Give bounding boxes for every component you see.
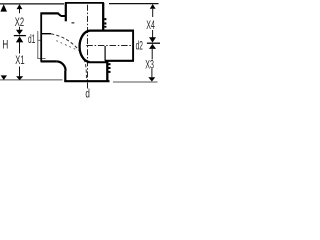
dimension X1 line xyxy=(19,42,21,53)
dimension X2 arrow bottom xyxy=(16,30,23,35)
outline: bottom edge left xyxy=(41,60,57,62)
dimension X3 arrow bottom xyxy=(148,77,155,81)
outline: spigot left edge xyxy=(64,71,66,82)
outline: right branch top edge xyxy=(90,30,135,32)
small floating dash xyxy=(72,22,75,23)
reference bar right (X4/X3) xyxy=(147,42,160,44)
pipe fitting technical drawing xyxy=(0,0,160,101)
outline: left socket top xyxy=(41,12,59,14)
outline: C ellipse (swept bend) xyxy=(80,31,90,63)
extension line top-right xyxy=(109,3,159,5)
outline: top face xyxy=(65,2,104,4)
extension line bottom-right xyxy=(113,81,158,83)
dimension X2 line xyxy=(19,9,21,13)
svg-text:X3: X3 xyxy=(145,59,154,71)
dimension X1 arrow bottom xyxy=(16,76,23,80)
outline: bore top xyxy=(42,33,51,35)
outline: top socket left edge xyxy=(65,3,67,22)
teeth top socket xyxy=(104,18,106,20)
dimension X4 line xyxy=(152,9,154,17)
dimension X3 line xyxy=(151,49,153,60)
extension line bottom-left xyxy=(0,79,63,81)
dimension X4 arrow bottom xyxy=(149,37,156,42)
dimension X1 arrow top xyxy=(16,36,23,42)
outline: C bottom tail xyxy=(90,61,108,63)
svg-text:d1: d1 xyxy=(28,32,35,46)
svg-text:X4: X4 xyxy=(146,20,155,32)
svg-text:d2: d2 xyxy=(136,39,143,53)
dimension X4 arrow top xyxy=(150,4,156,9)
vertical centerline xyxy=(87,5,89,89)
outline: step xyxy=(58,14,61,16)
svg-text:X1: X1 xyxy=(15,55,24,67)
svg-text:X2: X2 xyxy=(15,17,24,29)
outline: lower-left arc xyxy=(56,61,65,70)
teeth spigot xyxy=(108,63,110,65)
outline: right end face xyxy=(132,30,134,61)
svg-text:H: H xyxy=(2,39,8,51)
reference bar left (X2/X1) xyxy=(14,35,26,37)
dimension X3 arrow top xyxy=(149,44,156,49)
d1 witness line vertical xyxy=(38,31,46,59)
dashed inner line B xyxy=(56,41,78,51)
outline: body top left xyxy=(61,15,66,17)
d1 tick xyxy=(38,39,41,41)
dimension H arrow top xyxy=(0,4,7,11)
outline: top socket right edge xyxy=(102,3,104,31)
dashed inner sweep curve xyxy=(51,34,86,80)
outline: right branch bottom edge xyxy=(105,60,134,62)
outline: d2 shoulder xyxy=(104,46,106,61)
extension line top-left xyxy=(0,3,64,5)
svg-text:d: d xyxy=(85,87,90,101)
outline: bottom face xyxy=(64,80,109,82)
dimension H arrow bottom xyxy=(1,75,7,80)
outline: spigot right edge xyxy=(106,61,108,82)
dimension X2 arrow top xyxy=(17,4,23,9)
horizontal centerline xyxy=(86,45,134,47)
outline: left face xyxy=(40,13,42,62)
